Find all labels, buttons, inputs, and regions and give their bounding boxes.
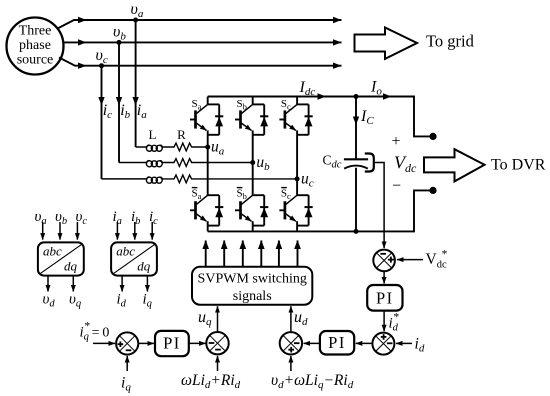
svg-text:source: source xyxy=(17,53,54,68)
SVPWM box xyxy=(192,267,312,305)
svg-text:Sb: Sb xyxy=(237,98,247,112)
node vb xyxy=(117,40,122,45)
PI box q xyxy=(155,331,189,356)
svg-text:Vdc: Vdc xyxy=(394,153,417,176)
Ic arrow xyxy=(353,117,359,126)
uq wire into SVPWM xyxy=(217,306,219,332)
svg-text:To grid: To grid xyxy=(426,32,475,51)
iq output arrow xyxy=(146,276,148,292)
node uc xyxy=(295,176,300,181)
svg-text:ib: ib xyxy=(120,102,130,121)
abc-dq block currents xyxy=(111,242,157,275)
leg A wires xyxy=(207,97,209,232)
svg-text:Sb: Sb xyxy=(237,187,247,201)
gate signal arrows xyxy=(205,241,207,267)
va input arrow xyxy=(42,222,44,240)
svg-text:PI: PI xyxy=(163,334,181,353)
svg-text:dq: dq xyxy=(137,259,151,274)
Vdc-ref arrow xyxy=(397,259,423,261)
svg-text:L: L xyxy=(149,127,157,142)
svg-text:ic: ic xyxy=(103,102,112,121)
svg-text:Vdc*: Vdc* xyxy=(426,249,448,271)
feedforward d arrow xyxy=(290,356,292,371)
freewheel diode of Sc-bar xyxy=(305,195,313,225)
vd output arrow xyxy=(47,276,49,292)
svg-text:Sa: Sa xyxy=(192,187,202,201)
svg-text:uq: uq xyxy=(198,309,212,328)
svg-text:abc: abc xyxy=(116,244,135,259)
leg B wires xyxy=(252,97,254,232)
PI box vdc xyxy=(367,285,402,311)
three phase source xyxy=(7,18,64,75)
inductor L phase b xyxy=(119,162,147,164)
svg-text:υc: υc xyxy=(76,209,88,227)
svg-text:iq: iq xyxy=(121,375,131,394)
wire summer to PI xyxy=(383,271,385,283)
bottom DC rail xyxy=(208,190,430,231)
resistor R phase c xyxy=(162,175,297,183)
summer uq xyxy=(206,332,228,354)
capacitor branch wire xyxy=(355,97,357,232)
svg-text:ua: ua xyxy=(211,139,225,158)
Idc arrow xyxy=(318,93,327,99)
inductor L phase a xyxy=(136,146,147,148)
svg-text:id*: id* xyxy=(389,312,399,334)
wire PI to summer id xyxy=(383,311,385,332)
svg-text:iq*= 0: iq*= 0 xyxy=(80,321,110,343)
svg-text:υq: υq xyxy=(69,292,81,310)
svg-text:iq: iq xyxy=(143,292,152,310)
resistor R phase a xyxy=(162,143,207,151)
to grid arrow xyxy=(355,28,418,59)
node va xyxy=(133,18,138,23)
svg-text:ia: ia xyxy=(137,102,147,121)
resistor R phase b xyxy=(162,159,252,167)
inductor L phase c xyxy=(102,178,147,180)
ia input arrow xyxy=(116,222,118,240)
ic input arrow xyxy=(151,222,153,240)
transistor Sa-bar xyxy=(190,195,219,225)
svg-text:abc: abc xyxy=(43,244,62,259)
svg-text:−: − xyxy=(392,178,401,195)
svg-text:To DVR: To DVR xyxy=(491,157,546,174)
summer ud xyxy=(280,332,302,354)
svg-text:ub: ub xyxy=(256,154,270,173)
PI box d xyxy=(320,331,354,355)
capacitor Cdc xyxy=(344,158,368,160)
svg-text:dq: dq xyxy=(64,259,78,274)
leg C wires xyxy=(296,97,298,232)
svg-text:+: + xyxy=(391,133,400,150)
transistor Sa xyxy=(190,104,219,134)
wire ia xyxy=(135,20,137,147)
svg-text:υb: υb xyxy=(55,209,67,227)
Vdc sense wire xyxy=(374,163,384,249)
node ub xyxy=(250,160,255,165)
freewheel diode of Sc xyxy=(305,104,313,134)
wire PI q to summer uq xyxy=(189,342,206,344)
id feedback arrow xyxy=(396,342,412,344)
abc-dq block voltages xyxy=(38,242,84,275)
Io arrow xyxy=(383,93,392,99)
svg-text:phase: phase xyxy=(19,38,51,53)
wire phase a to grid xyxy=(58,20,342,29)
svg-text:SVPWM switching: SVPWM switching xyxy=(198,272,307,287)
Vdc sensor bracket xyxy=(365,154,374,172)
transistor Sc-bar xyxy=(279,195,308,225)
summer iq xyxy=(116,332,138,354)
vb input arrow xyxy=(59,222,61,240)
wire summer id to PI d xyxy=(356,342,373,344)
svg-text:υd+ωLiq−Rid: υd+ωLiq−Rid xyxy=(271,372,354,391)
svg-text:ωLid+Rid: ωLid+Rid xyxy=(181,372,241,391)
plus terminal xyxy=(429,133,436,140)
svg-text:R: R xyxy=(177,127,186,142)
freewheel diode of Sb xyxy=(260,104,268,134)
svg-text:uc: uc xyxy=(301,171,314,190)
minus terminal xyxy=(429,187,436,194)
svg-text:id: id xyxy=(117,292,127,310)
svg-text:PI: PI xyxy=(376,289,394,308)
iq feedback arrow xyxy=(126,356,128,371)
svg-text:PI: PI xyxy=(328,333,346,352)
svg-text:Sa: Sa xyxy=(192,98,202,112)
id output arrow xyxy=(121,276,123,292)
feedforward q arrow xyxy=(217,356,219,371)
svg-text:IC: IC xyxy=(360,108,374,127)
summer Vdc xyxy=(373,250,395,272)
svg-text:signals: signals xyxy=(233,289,272,304)
svg-text:Io: Io xyxy=(370,79,382,98)
ib input arrow xyxy=(134,222,136,240)
svg-text:id: id xyxy=(415,336,425,355)
svg-text:Cdc: Cdc xyxy=(323,153,342,171)
vq output arrow xyxy=(72,276,74,292)
summer id xyxy=(372,333,394,355)
svg-text:Three: Three xyxy=(19,24,52,39)
node ua xyxy=(205,145,210,150)
wire ib xyxy=(118,42,120,162)
transistor Sb-bar xyxy=(235,195,264,225)
svg-text:υa: υa xyxy=(131,1,144,20)
freewheel diode of Sa xyxy=(215,104,223,134)
ud wire into SVPWM xyxy=(290,306,292,332)
svg-text:ib: ib xyxy=(131,209,140,227)
freewheel diode of Sb-bar xyxy=(260,195,268,225)
iq-ref arrow xyxy=(93,342,115,344)
svg-text:ia: ia xyxy=(113,209,122,227)
svg-text:Sc: Sc xyxy=(281,98,291,112)
svg-text:υb: υb xyxy=(113,24,126,43)
freewheel diode of Sa-bar xyxy=(215,195,223,225)
wire ic xyxy=(101,66,103,179)
vc input arrow xyxy=(76,222,78,240)
wire phase c to grid xyxy=(59,58,342,66)
svg-text:Idc: Idc xyxy=(299,79,316,98)
svg-text:υa: υa xyxy=(35,209,47,227)
wire phase b to grid xyxy=(64,41,342,43)
svg-text:υc: υc xyxy=(96,47,108,66)
node vc xyxy=(99,63,104,68)
top DC rail xyxy=(208,97,430,137)
svg-text:Sc: Sc xyxy=(281,187,291,201)
svg-text:ud: ud xyxy=(294,309,308,328)
to DVR arrow xyxy=(424,149,485,181)
svg-text:υd: υd xyxy=(43,292,56,310)
transistor Sc xyxy=(279,104,308,134)
svg-text:ic: ic xyxy=(149,209,158,227)
wire PI d to summer ud xyxy=(304,342,320,344)
transistor Sb xyxy=(235,104,264,134)
wire summer iq to PI q xyxy=(138,342,154,344)
